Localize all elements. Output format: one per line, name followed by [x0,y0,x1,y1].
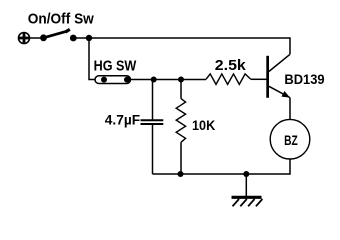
svg-text:10K: 10K [192,117,215,133]
svg-text:BZ: BZ [284,132,298,148]
svg-text:4.7µF: 4.7µF [105,112,140,127]
svg-text:HG SW: HG SW [94,58,137,75]
svg-text:2.5k: 2.5k [215,57,247,74]
svg-text:BD139: BD139 [284,72,324,87]
svg-text:On/Off Sw: On/Off Sw [28,10,94,27]
